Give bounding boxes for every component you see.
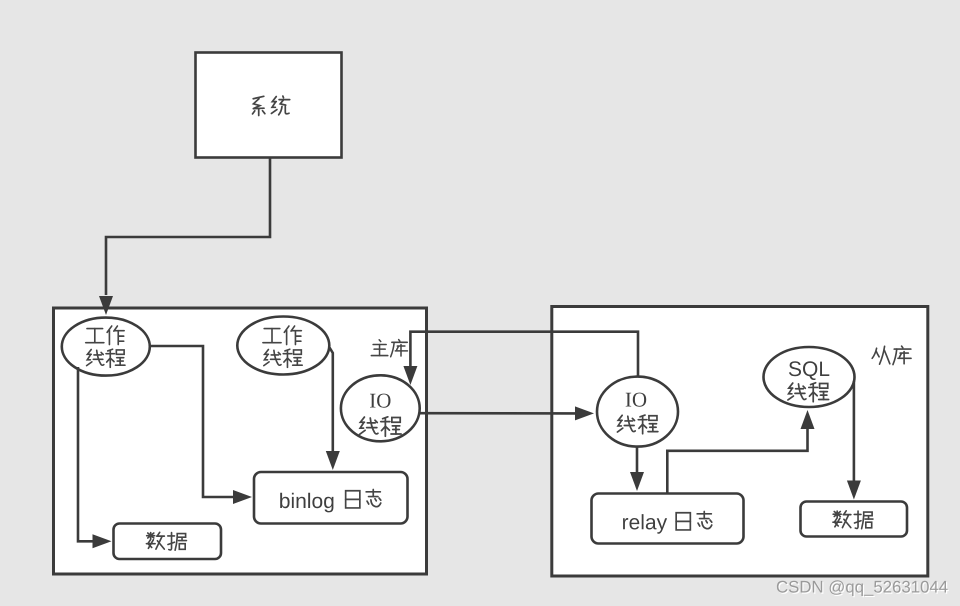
box relay 日志 bbox=[592, 494, 744, 544]
label 系统 bbox=[253, 96, 290, 115]
box 从库 (slave container) bbox=[552, 307, 928, 577]
ellipse 工作线程 #2 bbox=[237, 317, 329, 375]
wire relay → SQL 线程 bbox=[667, 410, 814, 493]
box binlog 日志 bbox=[254, 472, 408, 524]
wire slave IO → relay bbox=[630, 447, 644, 491]
box 系统 (system) bbox=[196, 53, 342, 158]
ellipse SQL 线程 bbox=[764, 347, 855, 407]
wire 工作线程#1 → 数据 bbox=[78, 367, 112, 548]
ellipse IO 线程 (master) bbox=[341, 375, 420, 441]
wire SQL 线程 → 数据 (slave) bbox=[847, 381, 861, 500]
ellipse 工作线程 #1 bbox=[62, 318, 150, 376]
box 主库 (master container) bbox=[54, 308, 427, 574]
ellipse IO 线程 (slave) bbox=[597, 377, 678, 447]
wire 工作线程#2 → binlog bbox=[326, 348, 340, 471]
label 从库 bbox=[872, 346, 911, 364]
wire master IO → slave IO (binlog events) bbox=[420, 406, 594, 420]
box 数据 (slave) bbox=[801, 502, 908, 537]
watermark CSDN bbox=[777, 580, 949, 597]
label 主库 bbox=[371, 340, 407, 357]
box 数据 (master) bbox=[114, 524, 222, 560]
wire slave IO → master IO (dump request) bbox=[403, 332, 638, 385]
wire 系统 → 主库 box bbox=[99, 158, 270, 315]
wire 工作线程#1 → binlog bbox=[151, 346, 252, 504]
